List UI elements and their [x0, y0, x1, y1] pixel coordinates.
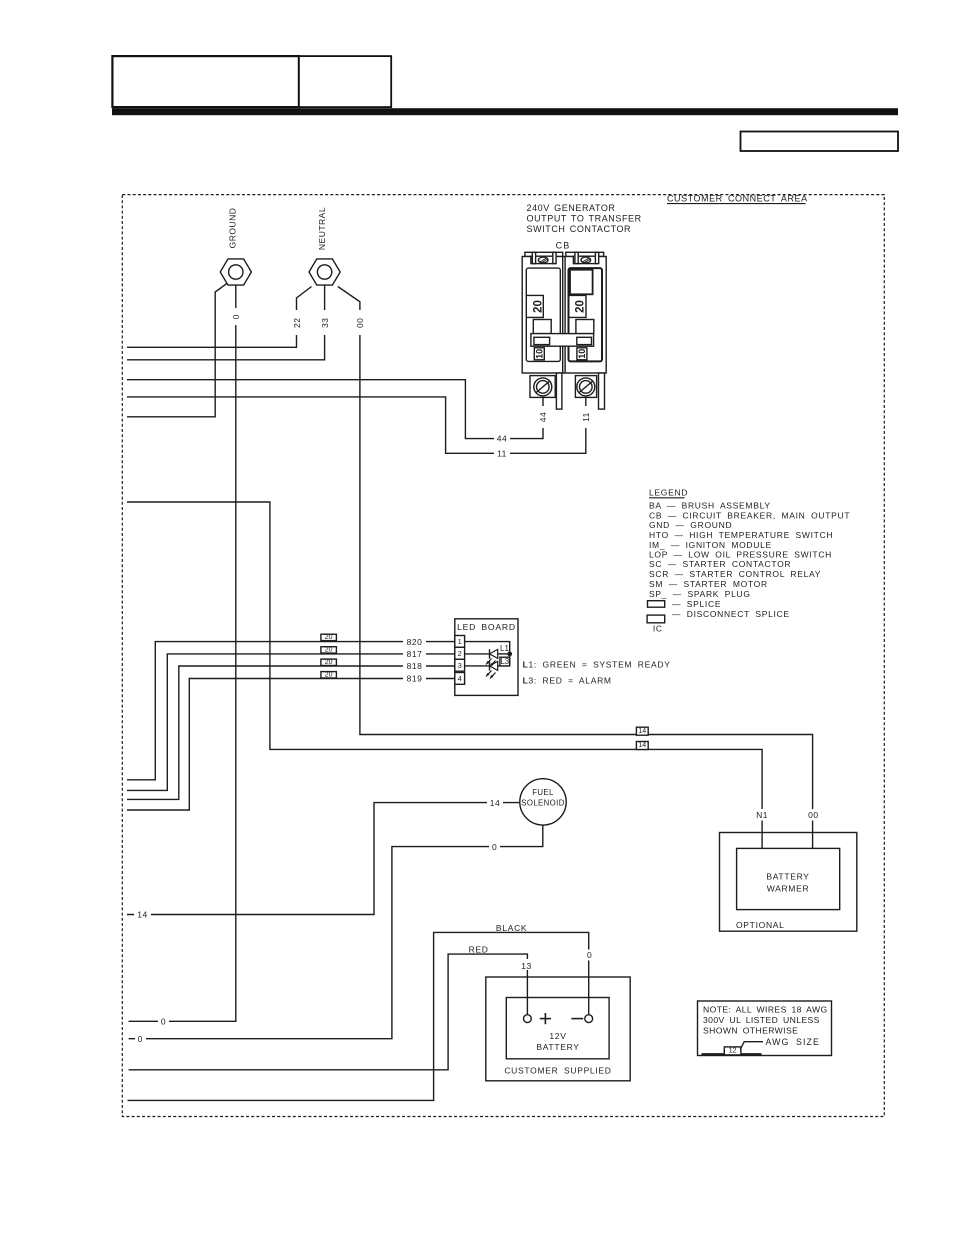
svg-text:10: 10 — [534, 349, 544, 359]
svg-text:SOLENOID: SOLENOID — [521, 799, 565, 808]
svg-text:14: 14 — [638, 728, 646, 735]
junction dot — [507, 652, 512, 657]
svg-text:L3: L3 — [500, 657, 509, 666]
svg-text:11: 11 — [581, 412, 591, 422]
svg-text:20: 20 — [575, 300, 587, 313]
svg-text:817: 817 — [407, 649, 423, 659]
BLACK label — [496, 923, 527, 933]
svg-text:SCR — STARTER CONTROL RELAY: SCR — STARTER CONTROL RELAY — [649, 569, 821, 579]
battery positive terminal — [524, 1013, 552, 1024]
svg-text:SHOWN OTHERWISE: SHOWN OTHERWISE — [703, 1025, 798, 1035]
title block right box — [299, 56, 391, 107]
LED board pin 3 — [455, 659, 465, 671]
wire label 44 horizontal — [494, 433, 510, 444]
LED board pin 1 — [455, 636, 465, 648]
svg-text:20: 20 — [325, 672, 333, 679]
wire 00: neutral lug down to battery warmer 00 — [338, 287, 813, 849]
LED L1 — [465, 649, 510, 666]
battery warmer outer box — [720, 833, 857, 932]
svg-text:SM — STARTER MOTOR: SM — STARTER MOTOR — [649, 579, 768, 589]
svg-text:0: 0 — [492, 842, 497, 852]
CB bottom terminal left — [530, 376, 555, 398]
svg-text:FUEL: FUEL — [532, 788, 554, 797]
neutral lug — [309, 259, 340, 285]
svg-text:SWITCH CONTACTOR: SWITCH CONTACTOR — [527, 224, 632, 234]
svg-text:13: 13 — [521, 961, 531, 971]
AWG box 14 upper on 00 wire — [636, 727, 648, 735]
svg-text:N1: N1 — [756, 810, 768, 820]
label 0 battery — [584, 950, 595, 961]
fuel solenoid wire 14 — [127, 803, 520, 915]
note AWG size box 12 — [724, 1047, 741, 1055]
svg-text:NOTE: ALL WIRES 18 AWG: NOTE: ALL WIRES 18 AWG — [703, 1004, 828, 1014]
svg-text:CUSTOMER CONNECT AREA: CUSTOMER CONNECT AREA — [667, 194, 808, 204]
240V generator note text — [527, 203, 642, 234]
svg-text:LEGEND: LEGEND — [649, 488, 688, 498]
LED board pin 4 — [455, 673, 465, 685]
svg-text:AWG SIZE: AWG SIZE — [766, 1037, 820, 1047]
CB crossbar — [531, 334, 594, 347]
wire label 00 — [354, 310, 365, 335]
svg-text:33: 33 — [320, 318, 330, 328]
wire label 11 rotated — [580, 406, 591, 428]
label 819 — [403, 673, 426, 684]
svg-text:4: 4 — [458, 674, 462, 683]
svg-text:L1: L1 — [500, 644, 509, 653]
svg-text:OPTIONAL: OPTIONAL — [736, 920, 785, 930]
svg-text:20: 20 — [325, 659, 333, 666]
svg-text:12: 12 — [729, 1048, 737, 1055]
wire 44: stub to CB left terminal — [127, 380, 543, 439]
OPTIONAL label — [736, 920, 785, 930]
battery box — [506, 998, 609, 1059]
CB label — [556, 241, 571, 251]
LED L3 label — [500, 657, 510, 666]
svg-text:0: 0 — [161, 1017, 166, 1027]
svg-text:L1: GREEN = SYSTEM READY: L1: GREEN = SYSTEM READY — [523, 660, 671, 670]
label 14 at solenoid — [487, 797, 503, 808]
AWG box 20 wire820 — [321, 634, 337, 641]
svg-text:BATTERY: BATTERY — [536, 1042, 579, 1052]
wire 22: stub to neutral lug — [127, 287, 312, 348]
LED wire 820 — [127, 642, 455, 780]
svg-text:00: 00 — [355, 318, 365, 328]
svg-text:RED: RED — [469, 945, 489, 955]
svg-text:SC — STARTER CONTACTOR: SC — STARTER CONTACTOR — [649, 559, 791, 569]
RED label — [469, 945, 489, 955]
revision box top right — [741, 132, 899, 152]
svg-text:L3: RED = ALARM: L3: RED = ALARM — [523, 676, 612, 686]
svg-text:SP_ — SPARK PLUG: SP_ — SPARK PLUG — [649, 589, 751, 599]
customer supplied box — [486, 977, 630, 1081]
LED board internal bus wire — [465, 642, 510, 666]
LED board pin 2 — [455, 647, 465, 659]
wire ground 0: lug down and left stub — [129, 285, 236, 1021]
label 14 stub — [134, 909, 151, 920]
wire N1 feed: stub down to battery warmer N1 — [127, 502, 762, 848]
svg-text:44: 44 — [497, 434, 507, 444]
svg-text:WARMER: WARMER — [767, 884, 810, 894]
LED wire 817 — [127, 654, 455, 791]
CB legs — [556, 373, 604, 409]
svg-text:CB — CIRCUIT BREAKER, MAIN: CB — CIRCUIT BREAKER, MAIN OUTPUT — [649, 510, 850, 520]
LED wire 818 — [127, 666, 455, 799]
svg-text:14: 14 — [137, 910, 147, 920]
GROUND label — [228, 208, 238, 249]
svg-text:1: 1 — [458, 637, 462, 646]
legend splice symbol — [648, 599, 722, 609]
svg-text:820: 820 — [407, 637, 423, 647]
svg-text:14: 14 — [490, 798, 500, 808]
wire 11: stub to CB right terminal — [127, 391, 586, 453]
label 0 inline fuel stub — [135, 1033, 146, 1044]
label 817 — [403, 649, 426, 660]
svg-text:14: 14 — [638, 742, 646, 749]
label 13 battery — [519, 959, 535, 971]
note box — [698, 1001, 832, 1056]
svg-text:10: 10 — [577, 349, 587, 359]
svg-text:0: 0 — [231, 314, 241, 319]
label 0 at solenoid — [489, 841, 500, 852]
svg-text:00: 00 — [808, 810, 818, 820]
fuel solenoid — [520, 779, 566, 825]
wire 33: stub to neutral lug — [127, 286, 325, 360]
svg-text:GROUND: GROUND — [228, 208, 238, 249]
label 818 — [403, 661, 426, 672]
RED battery wire — [129, 954, 528, 1070]
svg-text:LOP — LOW OIL PRESSURE SWITC: LOP — LOW OIL PRESSURE SWITCH — [649, 550, 832, 560]
svg-text:BLACK: BLACK — [496, 923, 527, 933]
svg-text:22: 22 — [292, 318, 302, 328]
AWG box 20 wire818 — [321, 659, 337, 666]
svg-text:CB: CB — [556, 241, 571, 251]
fuel solenoid wire 0 — [129, 825, 543, 1039]
LED wire 819 — [127, 679, 455, 811]
NEUTRAL label — [317, 207, 327, 250]
CB right pole internals — [569, 268, 603, 361]
svg-text:— DISCONNECT SPLICE: — DISCONNECT SPLICE — [672, 609, 790, 619]
svg-text:44: 44 — [538, 412, 548, 422]
svg-text:0: 0 — [138, 1034, 143, 1044]
svg-text:BATTERY: BATTERY — [766, 872, 809, 882]
wire label 0 inline ground — [158, 1016, 169, 1027]
svg-text:LED BOARD: LED BOARD — [457, 622, 516, 632]
svg-text:IM_ — IGNITON MODULE: IM_ — IGNITON MODULE — [649, 540, 772, 550]
legend disconnect splice symbol — [647, 609, 790, 623]
AWG box 14 lower on N1 wire — [636, 742, 648, 750]
svg-text:11: 11 — [497, 448, 507, 458]
00 terminal label — [805, 809, 822, 821]
N1 terminal label — [754, 809, 771, 821]
L3 legend text — [523, 676, 612, 686]
title block left box — [112, 56, 299, 107]
label 820 — [403, 636, 426, 647]
wire label 22 — [291, 310, 302, 335]
battery negative terminal — [571, 1015, 592, 1023]
note sample wire — [702, 1053, 762, 1055]
wire label 0 rotated — [231, 308, 242, 325]
wire ground stub to lug — [127, 283, 227, 417]
svg-text:CUSTOMER SUPPLIED: CUSTOMER SUPPLIED — [504, 1066, 611, 1076]
svg-text:819: 819 — [407, 674, 423, 684]
svg-text:HTO — HIGH TEMPERATURE SWITC: HTO — HIGH TEMPERATURE SWITCH — [649, 530, 833, 540]
wire label 33 — [319, 310, 330, 335]
svg-text:IC: IC — [653, 623, 663, 633]
BLACK battery wire — [128, 932, 589, 1100]
diagram dashed border — [122, 195, 884, 1117]
svg-text:GND — GROUND: GND — GROUND — [649, 520, 732, 530]
CB left pole internals — [526, 268, 560, 361]
circuit breaker CB body — [522, 252, 606, 373]
svg-text:300V UL LISTED UNLESS: 300V UL LISTED UNLESS — [703, 1015, 820, 1025]
legend — [649, 488, 850, 599]
svg-text:0: 0 — [587, 950, 592, 960]
LED L3 — [465, 661, 510, 678]
LED L1 label — [500, 644, 509, 653]
svg-text:3: 3 — [458, 661, 462, 670]
svg-text:240V GENERATOR: 240V GENERATOR — [527, 203, 616, 213]
svg-text:2: 2 — [458, 649, 462, 658]
svg-text:— SPLICE: — SPLICE — [672, 599, 721, 609]
svg-text:20: 20 — [532, 300, 544, 313]
thick header rule — [112, 108, 898, 115]
AWG box 20 wire819 — [321, 672, 337, 679]
svg-text:NEUTRAL: NEUTRAL — [317, 207, 327, 250]
svg-text:818: 818 — [407, 661, 423, 671]
note AWG size callout — [740, 1037, 820, 1049]
AWG box 20 wire817 — [321, 647, 337, 654]
legend IC label — [653, 623, 663, 633]
battery warmer inner box — [737, 848, 840, 909]
svg-text:OUTPUT TO TRANSFER: OUTPUT TO TRANSFER — [527, 213, 642, 223]
svg-text:BA — BRUSH ASSEMBLY: BA — BRUSH ASSEMBLY — [649, 501, 771, 511]
wire label 11 horizontal — [494, 448, 510, 459]
CUSTOMER CONNECT AREA heading — [667, 194, 808, 204]
svg-text:20: 20 — [325, 647, 333, 654]
LED board box — [455, 619, 518, 696]
ground lug GND — [220, 259, 251, 285]
CB bottom terminal right — [575, 376, 596, 398]
L1 legend text — [523, 660, 671, 670]
svg-text:12V: 12V — [549, 1031, 566, 1041]
wire label 44 rotated — [538, 406, 549, 428]
svg-text:20: 20 — [325, 634, 333, 641]
